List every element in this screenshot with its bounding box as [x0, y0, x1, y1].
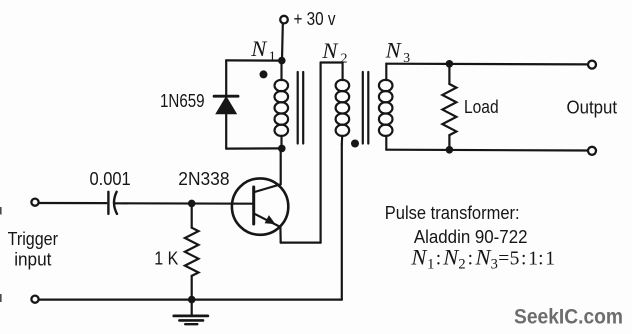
- svg-text:input: input: [14, 249, 51, 269]
- wire N2 bottom down to ground rail: [341, 144, 343, 300]
- node B junction dot: [278, 145, 286, 153]
- capacitor C1 0.001: [108, 192, 117, 214]
- transformer winding N2: [321, 63, 350, 145]
- svg-text:2N338: 2N338: [178, 169, 229, 189]
- node C junction dot: [188, 200, 196, 208]
- wire node A to diode branch top: [226, 59, 282, 61]
- node D junction dot: [188, 296, 196, 304]
- svg-text:Pulse transformer:: Pulse transformer:: [385, 203, 520, 223]
- svg-text:5: 5: [510, 248, 520, 269]
- wire capacitor to node C to base of Q1: [114, 202, 253, 205]
- wire N3 top to output terminal: [386, 63, 587, 66]
- svg-text:2: 2: [458, 257, 465, 273]
- svg-text:N: N: [250, 36, 268, 61]
- svg-text:Output: Output: [567, 98, 618, 118]
- svg-text::: :: [468, 248, 473, 269]
- wire emitter horizontal: [281, 242, 321, 244]
- svg-text::: :: [521, 248, 526, 269]
- transformer core lines right: [363, 72, 369, 144]
- terminal +30V supply: [280, 16, 288, 24]
- svg-text:Trigger: Trigger: [8, 229, 58, 249]
- transformer winding N1: [275, 61, 289, 149]
- resistor Load: [442, 64, 456, 150]
- wire collector to node B: [280, 148, 282, 184]
- wire emitter up to N2 top: [320, 63, 322, 243]
- wire diode branch top vertical: [225, 60, 227, 96]
- svg-text:N: N: [321, 38, 339, 63]
- node A junction dot: [278, 57, 286, 65]
- svg-text::: :: [436, 248, 441, 269]
- svg-text:1N659: 1N659: [160, 91, 205, 111]
- svg-text:N: N: [410, 244, 428, 269]
- svg-text:Aladdin 90-722: Aladdin 90-722: [414, 227, 528, 247]
- svg-text:+ 30 v: + 30 v: [294, 9, 336, 29]
- node F junction dot: [446, 146, 454, 154]
- svg-text:1 K: 1 K: [154, 248, 178, 268]
- svg-text:0.001: 0.001: [90, 169, 131, 189]
- svg-text:1: 1: [528, 248, 538, 269]
- svg-text:3: 3: [491, 257, 498, 273]
- terminal trigger input top: [31, 199, 38, 206]
- wire ground rail: [40, 299, 342, 301]
- svg-text:N: N: [385, 38, 403, 63]
- svg-text:1: 1: [427, 257, 434, 273]
- polarity dot N2: [351, 140, 359, 148]
- wire diode branch bottom to node B: [226, 147, 282, 149]
- scan artifact left edge top: [0, 207, 2, 215]
- terminal output top: [588, 61, 596, 69]
- node E junction dot: [446, 60, 454, 68]
- svg-text:1: 1: [269, 50, 276, 65]
- terminal trigger input bottom: [31, 296, 38, 303]
- wire emitter down: [279, 227, 282, 243]
- svg-text:2: 2: [341, 52, 348, 67]
- polarity dot N1: [260, 70, 268, 78]
- svg-text:Load: Load: [464, 97, 499, 117]
- transformer core lines left: [298, 72, 304, 144]
- transistor Q1 2N338: [232, 178, 288, 234]
- svg-text:1: 1: [545, 248, 555, 269]
- svg-text::: :: [538, 248, 543, 269]
- wire trigger top to capacitor: [39, 202, 106, 204]
- wire N3 bottom to output terminal: [386, 149, 587, 152]
- wire supply to node A: [281, 24, 284, 60]
- ground: [174, 300, 208, 325]
- terminal output bottom: [588, 147, 596, 155]
- scan artifact left edge bottom: [0, 294, 2, 302]
- wire diode branch bottom vertical: [225, 114, 227, 149]
- note Pulse transformer: [385, 203, 528, 247]
- note turns ratio N1:N2:N3=5:1:1: [410, 244, 555, 272]
- diode D1 1N659: [214, 96, 238, 113]
- svg-text:=: =: [498, 248, 509, 269]
- transformer winding N3: [379, 64, 393, 150]
- label Trigger input: [8, 229, 58, 269]
- svg-text:SeekIC.com: SeekIC.com: [514, 305, 623, 329]
- resistor R1 1K: [185, 203, 199, 299]
